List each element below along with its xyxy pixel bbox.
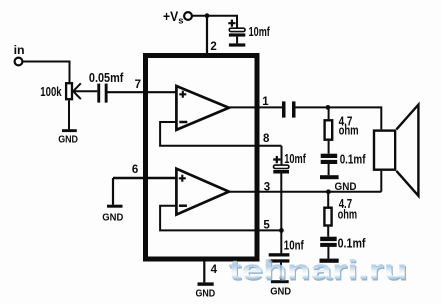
IC box xyxy=(146,56,258,260)
wire +Vs to capacitor C2 xyxy=(192,16,237,28)
svg-text:ohm: ohm xyxy=(338,207,358,221)
resistor R3 4.7 ohm xyxy=(324,197,357,225)
wire R3 to capacitor C8 xyxy=(327,227,329,237)
capacitor C2 10mf xyxy=(228,20,270,44)
ground under C7 xyxy=(270,280,291,297)
wire C4 to ground xyxy=(328,164,330,175)
wire op-amp U1B feedback to pin 5 xyxy=(160,206,281,231)
capacitor C4 0.1mf xyxy=(321,153,366,167)
node in (input terminal) xyxy=(14,43,25,66)
ground under potentiometer xyxy=(58,129,78,146)
svg-text:1: 1 xyxy=(262,96,269,108)
svg-text:0.1mf: 0.1mf xyxy=(338,236,367,250)
wire C8 to ground xyxy=(327,247,329,259)
svg-text:+V: +V xyxy=(163,9,178,24)
op-amp U1A xyxy=(176,86,229,130)
wire pin 6 to op-amp U1B plus input xyxy=(113,177,177,179)
wire C3 to speaker xyxy=(296,107,382,129)
junction pin 5 xyxy=(279,228,284,233)
wire pin 3 output to speaker xyxy=(227,171,381,192)
junction +Vs xyxy=(205,13,210,18)
op-amp U1B xyxy=(176,169,229,215)
wire op-amp U1A feedback to pin 8 xyxy=(160,122,281,146)
capacitor C7 10nf xyxy=(269,238,305,262)
wire node A to resistor R2 xyxy=(328,107,330,119)
wire R2 to capacitor C4 xyxy=(328,141,330,154)
wire input to potentiometer xyxy=(23,62,70,84)
svg-text:GND: GND xyxy=(58,135,78,146)
capacitor C6 10mf bootstrap xyxy=(273,152,306,174)
svg-text:3: 3 xyxy=(264,182,270,194)
svg-text:8: 8 xyxy=(263,133,270,145)
node A junction xyxy=(326,105,331,110)
wire pin 4 to ground xyxy=(203,262,205,283)
svg-text:ohm: ohm xyxy=(339,124,359,138)
ground bar bottom zobel xyxy=(320,259,339,263)
svg-text:s: s xyxy=(178,16,183,27)
svg-text:10mf: 10mf xyxy=(284,152,306,166)
speaker LS1 xyxy=(374,105,418,196)
svg-text:10mf: 10mf xyxy=(249,25,271,39)
svg-text:0.05mf: 0.05mf xyxy=(89,71,124,85)
watermark tehnari.ru xyxy=(229,254,409,286)
potentiometer R1 100k body xyxy=(66,83,72,99)
svg-text:in: in xyxy=(14,43,25,57)
resistor R2 4.7 ohm xyxy=(325,114,359,139)
label +Vs xyxy=(163,9,183,26)
ground under pin 6 xyxy=(102,205,123,224)
wire pin 6 to ground xyxy=(112,178,114,205)
wire junction to capacitor C7 xyxy=(280,230,282,253)
ground bar under C2 xyxy=(229,43,245,46)
svg-text:GND: GND xyxy=(196,289,216,300)
potentiometer R1 wiper arrow xyxy=(73,83,81,99)
svg-text:tehnari.ru: tehnari.ru xyxy=(229,254,408,285)
wire C1 to pin 7 / op-amp U1A plus input xyxy=(108,91,177,93)
node +Vs terminal xyxy=(184,12,192,20)
capacitor C1 0.05mf xyxy=(89,71,124,102)
svg-text:0.1mf: 0.1mf xyxy=(340,153,366,167)
capacitor C3 xyxy=(282,101,296,117)
wire C7 to ground xyxy=(280,263,282,281)
wire pin 8 down to capacitor C6 xyxy=(281,146,283,165)
svg-text:10nf: 10nf xyxy=(284,238,305,252)
svg-text:4: 4 xyxy=(211,264,218,276)
wire potentiometer bottom to ground xyxy=(68,100,70,129)
svg-text:GND: GND xyxy=(270,287,291,298)
junction pin 3 zobel xyxy=(326,189,331,194)
ground bar top zobel xyxy=(320,175,357,193)
svg-text:100k: 100k xyxy=(40,85,62,99)
capacitor C8 0.1mf xyxy=(320,236,366,250)
wire pin 2 xyxy=(206,16,208,54)
wire pin 1 output to capacitor C3 xyxy=(227,106,282,108)
wire junction to resistor R3 xyxy=(327,192,329,207)
wire wiper to capacitor C1 xyxy=(74,90,98,92)
svg-text:6: 6 xyxy=(132,164,138,176)
ground under pin 4 xyxy=(196,282,216,299)
svg-text:GND: GND xyxy=(102,212,123,223)
wire C6 to pin 5 junction xyxy=(280,174,282,231)
svg-text:5: 5 xyxy=(263,219,270,231)
svg-text:2: 2 xyxy=(210,41,216,53)
svg-text:7: 7 xyxy=(135,79,141,91)
